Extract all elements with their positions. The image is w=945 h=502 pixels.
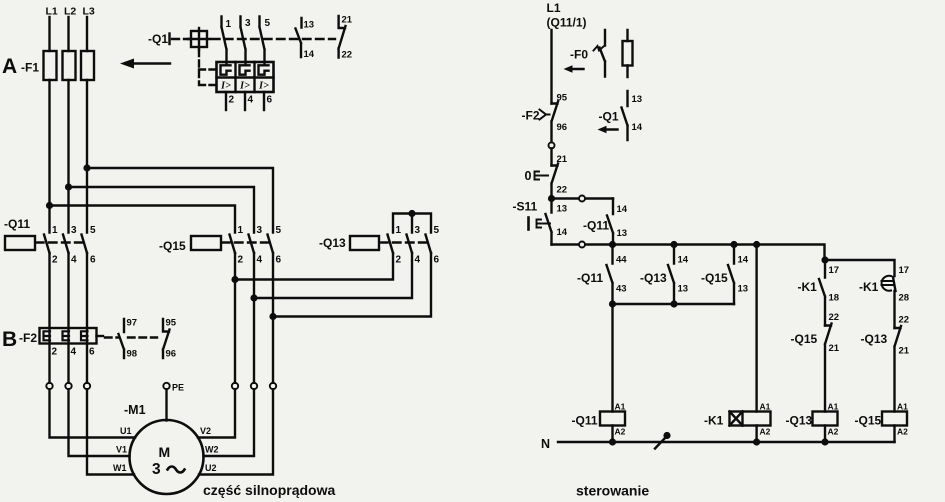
svg-text:17: 17 [829,265,840,276]
terminal circle V1 [65,383,71,389]
svg-text:-F2: -F2 [19,331,37,345]
wire Q13-2 to Q15 branch [235,253,393,280]
arrow Q1 pointing left [604,128,618,130]
svg-text:5: 5 [265,18,271,29]
wire Q13-4 to Q15 branch [254,253,412,298]
contactor Q15 pole 5-6 [268,235,274,254]
svg-text:14: 14 [617,204,628,215]
relay F2 dashed link [105,336,157,338]
svg-text:I>: I> [220,81,231,92]
svg-text:95: 95 [166,318,177,329]
svg-text:B: B [2,328,17,351]
terminal circle W2 [251,383,257,389]
breaker Q1 bottom stub 2 [225,92,227,110]
node Q15-4 to Q13 tap [250,294,257,301]
svg-text:2: 2 [229,95,235,106]
svg-text:-F0: -F0 [570,48,588,62]
svg-text:21: 21 [829,343,840,354]
arrow F0 pointing left [570,68,584,70]
node rail K1 branch [753,241,760,248]
svg-text:-Q15: -Q15 [855,414,882,428]
node rail Q13 branch [670,241,677,248]
svg-text:21: 21 [899,346,910,357]
svg-text:17: 17 [899,265,910,276]
relay F2 heater 2 [63,331,70,340]
svg-text:0: 0 [525,169,532,183]
svg-text:22: 22 [342,50,353,61]
node join Q13 [670,300,677,307]
svg-text:3: 3 [152,461,161,478]
svg-text:18: 18 [829,293,840,304]
svg-text:L1: L1 [547,1,561,15]
breaker Q1 dashed link left [172,38,189,40]
wire V1 to motor [69,389,130,456]
terminal circle control 1 [549,142,555,148]
svg-text:22: 22 [557,185,568,196]
wire Q15 pole1 down [234,253,236,383]
svg-text:21: 21 [342,15,353,26]
wire W1 to motor [87,389,134,474]
wire Q13-6 to Q15 branch [273,253,431,317]
svg-text:4: 4 [71,347,77,358]
node K1 chain split [821,256,828,263]
svg-text:-F1: -F1 [21,61,39,75]
svg-text:1: 1 [238,225,244,236]
node tap L2 to Q15 [65,183,72,190]
wire L3 vertical mid [86,80,88,233]
wire split to timer chain [825,260,895,276]
svg-text:6: 6 [276,255,282,266]
svg-text:L1: L1 [46,6,58,18]
pushbutton I actuator [527,218,530,230]
svg-text:-Q13: -Q13 [640,271,667,285]
svg-text:13: 13 [617,228,628,239]
node join Q11 [609,300,616,307]
pushbutton S11 start I NO [546,199,552,245]
svg-text:6: 6 [434,255,440,266]
timer delay symbol [882,276,891,291]
arrow pointing left to A [131,62,170,64]
svg-text:2: 2 [52,255,58,266]
terminal circle V2 [232,383,238,389]
node tap L1 to Q15 [46,202,53,209]
svg-text:14: 14 [304,49,315,60]
breaker Q1 thermal hook 1 [221,65,231,74]
terminal circle U2 [270,383,276,389]
breaker F0 contact [600,30,606,77]
wire L3 vertical top [86,17,88,51]
svg-text:-K1: -K1 [704,414,724,428]
wire L1 vertical top [48,17,50,51]
wire S11 to Q11 aux branch [552,197,614,199]
relay F2 aux contact 95-96 [163,319,170,358]
breaker Q1 pole 5-6 [260,17,265,66]
svg-text:3: 3 [415,225,421,236]
svg-text:1: 1 [226,19,232,30]
contactor Q11 coil box [5,236,35,250]
svg-text:-Q15: -Q15 [159,239,186,253]
wire down to Q11 coil [611,304,613,412]
breaker Q1 aux contact 21-22 [339,16,346,58]
svg-text:-Q13: -Q13 [786,414,813,428]
svg-text:43: 43 [616,284,627,295]
svg-text:4: 4 [415,255,421,266]
svg-text:13: 13 [678,284,689,295]
node N Q13 [821,438,828,445]
svg-text:-Q11: -Q11 [583,219,609,233]
svg-text:2: 2 [238,255,244,266]
node tap L3 to Q15 [83,164,90,171]
svg-text:13: 13 [304,20,315,31]
svg-text:4: 4 [257,255,263,266]
svg-text:A1: A1 [615,402,626,412]
svg-text:A1: A1 [897,402,908,412]
svg-text:4: 4 [71,255,77,266]
contactor Q13 pole 3-4 [407,235,413,254]
svg-text:-Q15: -Q15 [791,332,818,346]
contactor Q15 coil box [191,236,221,250]
breaker Q1 dashed link to trip box [199,50,215,85]
breaker Q1 bottom stub 6 [263,92,265,110]
svg-text:96: 96 [557,122,568,133]
breaker Q1 thermal hook 3 [259,65,269,74]
wire L2 tap to Q15 pole3 [69,187,255,233]
wire L2 vertical top [67,17,69,51]
svg-text:13: 13 [632,94,643,105]
contactor Q15 pole 1-2 [230,235,236,254]
breaker Q1 aux contact 13-14 [296,18,302,57]
wire K1 coil to N [755,426,757,443]
node Q13 star point [408,210,415,217]
terminal circle on branch wire [579,196,585,202]
svg-text:6: 6 [267,95,273,106]
wire L3 tap to Q15 pole5 [87,168,273,233]
wire Q13 star bridge [393,214,431,233]
svg-text:13: 13 [557,204,568,215]
pushbutton S11 stop 0 NC [552,164,559,196]
svg-text:1: 1 [52,225,58,236]
breaker Q1 dashed link across poles [212,38,335,40]
svg-text:-Q15: -Q15 [701,271,728,285]
svg-text:M: M [159,444,171,460]
node N K1 [753,438,760,445]
terminal circle U1 [46,383,52,389]
contactor Q13 dashed link [380,241,428,243]
wire U2 to motor [199,389,273,474]
svg-text:U1: U1 [120,426,132,436]
breaker Q1 pole 3-4 [241,17,246,66]
svg-text:5: 5 [276,225,282,236]
svg-text:-Q13: -Q13 [861,332,888,346]
svg-text:-Q13: -Q13 [319,236,346,250]
svg-text:A2: A2 [615,427,626,437]
breaker Q1 thermal hook 2 [240,65,250,74]
wire Q13 coil to N [824,426,826,443]
svg-text:-K1: -K1 [859,280,879,294]
wire W2 to motor [204,389,255,456]
contactor Q13 pole 1-2 [388,235,394,254]
node rail Q15 branch [730,241,737,248]
wire L1 vertical mid [48,80,50,233]
fuse F0 alternative [626,30,628,77]
svg-text:14: 14 [632,122,643,133]
relay F2 aux contact 97-98 [119,319,125,358]
fuse F1 pole3 [81,51,94,80]
svg-text:część silnoprądowa: część silnoprądowa [203,482,335,498]
wire Q11 pole1 down [48,253,50,383]
contactor Q11 pole 3-4 [63,235,69,254]
relay F2 box [40,328,97,344]
wire Q11 coil to N [611,426,613,443]
svg-text:14: 14 [678,255,689,266]
breaker Q1 operator square [191,31,207,47]
breaker Q1 pole 1-2 [222,17,227,66]
node Q15-2 to Q13 tap [231,276,238,283]
terminal circle W1 [84,383,90,389]
wire L2 vertical mid [67,80,69,233]
svg-text:6: 6 [90,255,96,266]
svg-text:V1: V1 [116,445,127,455]
contactor Q13 coil box [350,236,379,250]
breaker Q1 operator cross horizontal [188,38,210,40]
breaker Q1 trip unit box [217,62,274,92]
svg-text:PE: PE [172,383,184,393]
node rail Q11 branch [609,241,616,248]
svg-text:sterowanie: sterowanie [576,483,649,499]
terminal circle PE [163,383,169,389]
contactor Q11 pole 5-6 [82,235,88,254]
contactor Q15 pole 3-4 [249,235,255,254]
wire PE to motor [165,389,167,420]
wire to stop button [550,148,552,165]
node S11 junction [548,195,555,202]
svg-text:N: N [541,437,550,451]
wire U1 to motor [50,389,136,437]
svg-text:2: 2 [52,347,58,358]
svg-text:A: A [2,55,17,78]
svg-text:I>: I> [239,81,250,92]
wire Q15 coil to N [893,426,895,443]
node N Q11 [609,438,616,445]
wire Q11 pole2 down [67,253,69,383]
svg-text:22: 22 [829,312,840,323]
contactor Q11 dashed link [36,241,84,243]
wire N rail [558,441,895,443]
svg-text:2: 2 [396,255,402,266]
svg-text:5: 5 [90,225,96,236]
wire control main top [550,30,552,104]
wire control rail [552,245,825,261]
svg-text:95: 95 [557,93,568,104]
svg-text:97: 97 [127,318,138,329]
svg-text:-K1: -K1 [798,280,818,294]
node Q15-6 to Q13 tap [269,313,276,320]
svg-text:-Q11: -Q11 [577,271,603,285]
svg-text:A1: A1 [760,402,771,412]
breaker Q1 bottom stub 4 [244,92,246,110]
wire V2 to motor [198,389,235,437]
wire parallel contacts join [613,303,735,305]
svg-text:-Q11: -Q11 [4,217,30,231]
svg-text:44: 44 [616,255,627,266]
svg-text:3: 3 [71,225,77,236]
svg-text:6: 6 [89,347,95,358]
wire Q15 pole2 down [253,253,255,383]
fuse F1 pole2 [63,51,76,80]
svg-text:-Q1: -Q1 [599,110,619,124]
svg-text:-M1: -M1 [124,403,146,417]
svg-text:4: 4 [248,95,254,106]
svg-text:-Q11: -Q11 [572,414,598,428]
svg-text:14: 14 [557,227,568,238]
motor M1 circle [130,420,204,494]
fuse F1 pole1 [44,51,57,80]
contactor Q11 pole 1-2 [44,235,50,254]
svg-text:-Q1: -Q1 [148,32,168,46]
svg-text:28: 28 [899,293,910,304]
wire Q15 pole3 down [272,253,274,383]
svg-text:3: 3 [257,225,263,236]
breaker Q1 operator cross vertical [198,28,200,50]
svg-text:5: 5 [434,225,440,236]
svg-text:L2: L2 [64,6,76,18]
svg-text:V2: V2 [200,426,211,436]
wire down to K1 coil [755,245,757,412]
svg-text:A1: A1 [828,402,839,412]
contactor Q13 pole 5-6 [426,235,432,254]
relay F2 trip chevron [540,110,550,120]
breaker Q1 label tick [168,34,170,45]
svg-text:W2: W2 [205,445,219,455]
wire L1 tap to Q15 pole1 [50,206,236,233]
svg-text:96: 96 [166,349,177,360]
relay F2 link stub [97,335,104,337]
terminal circle on rail [579,242,585,248]
svg-text:A2: A2 [828,427,839,437]
relay F2 heater 3 [81,331,88,340]
svg-text:A2: A2 [897,427,908,437]
wire Q11 pole3 down [86,253,88,383]
svg-text:1: 1 [396,225,402,236]
svg-text:3: 3 [245,18,251,29]
svg-text:14: 14 [738,255,749,266]
contactor Q15 dashed link [222,241,270,243]
relay F2 heater 1 [44,331,51,340]
svg-text:U2: U2 [205,463,217,473]
svg-text:-S11: -S11 [513,200,538,214]
svg-text:I>: I> [258,81,269,92]
N break symbol [655,438,666,449]
svg-text:W1: W1 [113,463,127,473]
svg-text:A2: A2 [760,427,771,437]
svg-text:13: 13 [738,284,749,295]
svg-text:22: 22 [899,315,910,326]
svg-text:(Q11/1): (Q11/1) [547,16,587,30]
svg-text:L3: L3 [83,6,95,18]
breaker F0 release zigzag [594,46,604,51]
svg-text:98: 98 [127,349,138,360]
svg-text:-F2: -F2 [522,109,540,123]
